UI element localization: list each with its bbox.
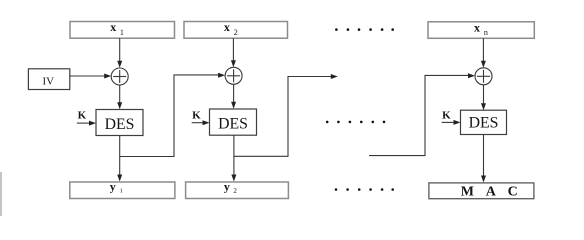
svg-text:1: 1 bbox=[120, 188, 123, 195]
svg-text:K: K bbox=[192, 110, 201, 122]
wire DES1 feedback to xor2 bbox=[120, 73, 225, 157]
svg-text:K: K bbox=[442, 110, 451, 122]
scan artifact left edge bbox=[0, 172, 2, 216]
block x2 bbox=[184, 20, 288, 38]
svg-text:M A C: M A C bbox=[461, 185, 522, 200]
wire x2 to xor2 bbox=[231, 38, 236, 67]
svg-text:x: x bbox=[110, 20, 116, 34]
wire x1 to xor1 bbox=[117, 38, 122, 68]
block DES3 bbox=[461, 110, 507, 134]
svg-text:K: K bbox=[78, 109, 87, 121]
svg-text:n: n bbox=[484, 28, 488, 37]
svg-text:x: x bbox=[474, 20, 480, 34]
block y2 bbox=[186, 179, 289, 198]
svg-text:DES: DES bbox=[469, 115, 499, 132]
ellipsis bottom bbox=[335, 188, 394, 191]
svg-text:DES: DES bbox=[105, 116, 135, 133]
wire K2 to DES2 bbox=[192, 120, 210, 125]
wire DES2 feedback to dots bbox=[234, 74, 338, 156]
ellipsis top bbox=[335, 28, 394, 31]
svg-text:2: 2 bbox=[234, 28, 238, 37]
svg-text:1: 1 bbox=[120, 28, 124, 37]
svg-text:y: y bbox=[110, 179, 116, 193]
xor U1 bbox=[111, 68, 128, 85]
block IV bbox=[28, 69, 69, 90]
block y1 bbox=[70, 179, 175, 198]
wire xor2 to DES2 bbox=[231, 84, 236, 109]
block xn bbox=[428, 20, 534, 38]
wire K3 to DES3 bbox=[442, 120, 461, 125]
svg-text:y: y bbox=[224, 179, 230, 193]
svg-text:x: x bbox=[224, 20, 230, 34]
ellipsis middle bbox=[326, 121, 385, 124]
xor U2 bbox=[225, 67, 242, 84]
wire DES2 to y2 bbox=[231, 135, 236, 181]
block DES1 bbox=[96, 110, 143, 136]
wire dots feedback to xor3 bbox=[369, 73, 475, 155]
wire xor3 to DES3 bbox=[481, 85, 486, 110]
wire xor1 to DES1 bbox=[117, 85, 122, 109]
xor U3 bbox=[475, 68, 492, 85]
svg-text:IV: IV bbox=[43, 76, 55, 88]
wire K1 to DES1 bbox=[77, 121, 96, 126]
svg-text:2: 2 bbox=[233, 187, 237, 195]
wire DES1 to y1 bbox=[117, 136, 122, 182]
wire IV to xor1 bbox=[70, 74, 111, 79]
block MAC bbox=[429, 183, 534, 200]
wire DES3 to MAC bbox=[481, 135, 486, 183]
block x1 bbox=[70, 20, 175, 38]
wire xn to xor3 bbox=[481, 38, 486, 68]
svg-text:DES: DES bbox=[218, 116, 248, 133]
block DES2 bbox=[210, 109, 257, 135]
